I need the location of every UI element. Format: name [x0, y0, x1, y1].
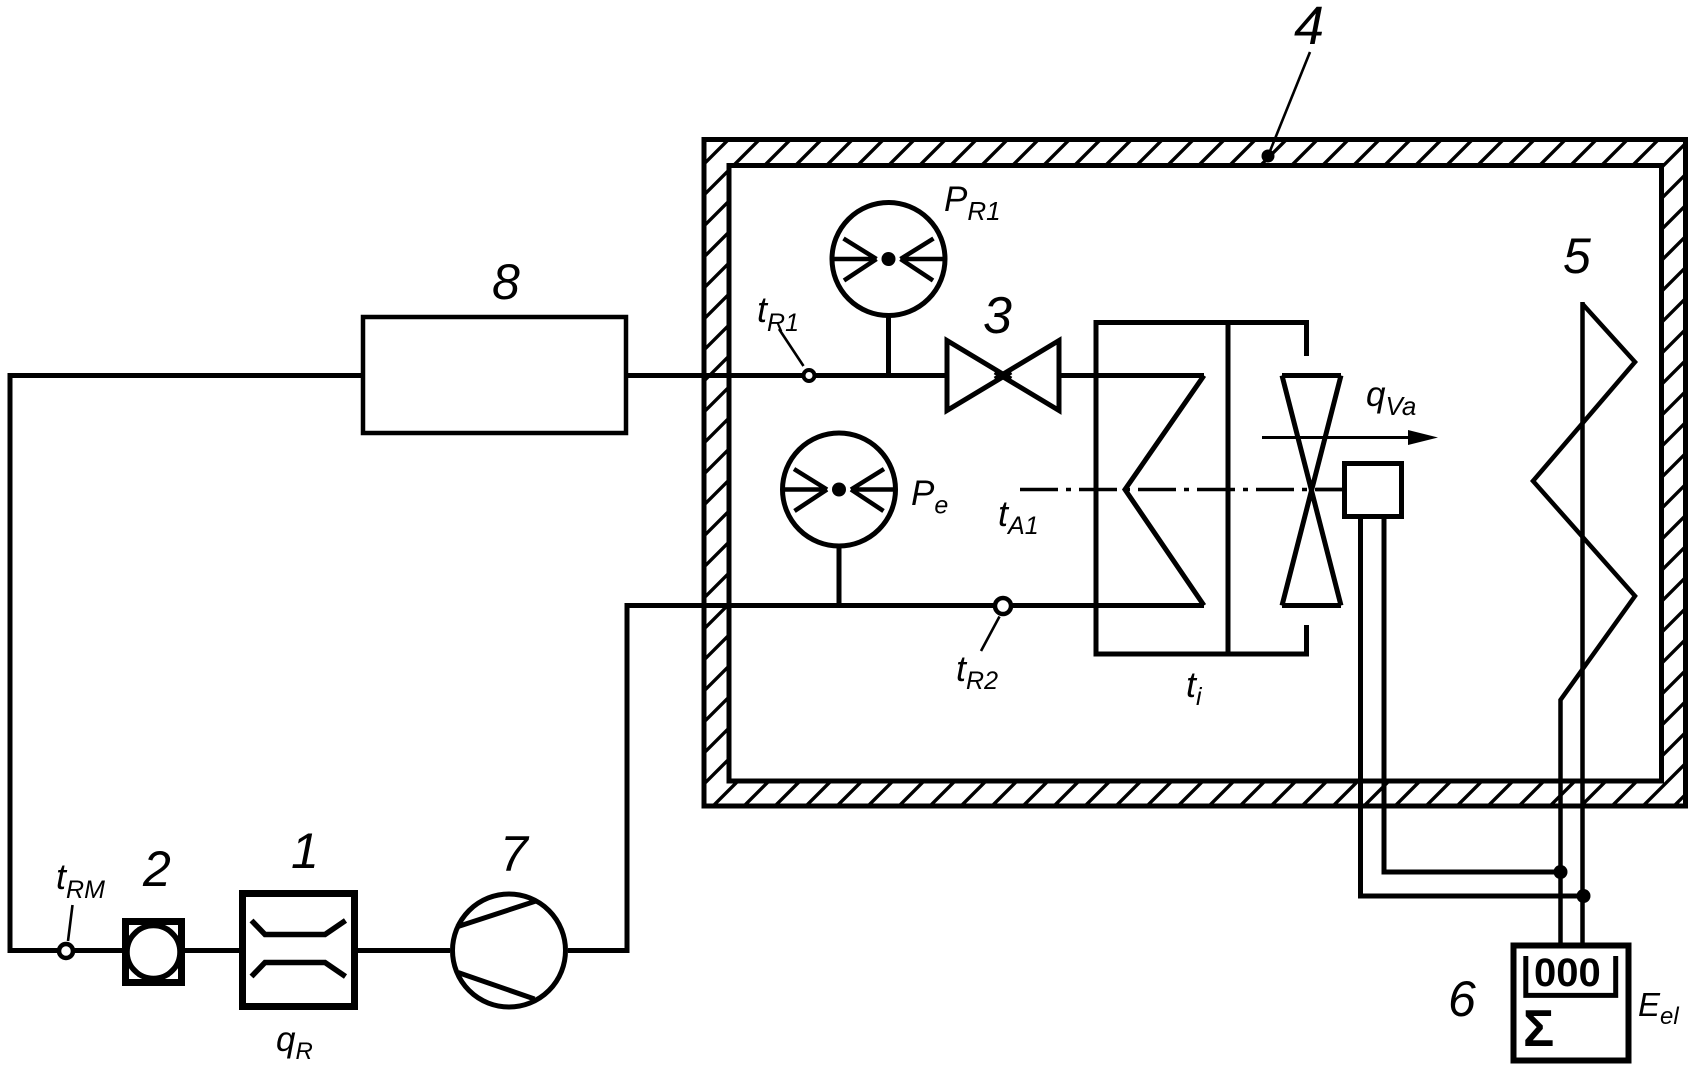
wire: condenser 8 outlet loop (left vertical + bottom to sensor)	[10, 376, 363, 951]
wire: fan shaft stub to motor	[1316, 488, 1346, 492]
callout line for 4	[1268, 52, 1310, 156]
flow meter 1 venturi top line	[252, 921, 346, 935]
fan motor M	[1345, 464, 1402, 517]
evaporator ti divider	[1226, 323, 1231, 655]
junction dot fan/heater wire 2	[1577, 889, 1591, 903]
svg-text:5: 5	[1563, 228, 1591, 284]
callout line tRM	[68, 905, 73, 941]
pressure gauge PR1 internal symbol	[832, 239, 945, 281]
centerline tA1 (dash-dot axis)	[1020, 488, 1342, 492]
compressor 7 vanes	[457, 901, 537, 999]
valve 3 left triangle	[947, 341, 1011, 411]
heater 5 zigzag element	[1533, 304, 1635, 943]
wire: vertical pipe down to compressor 7	[568, 603, 627, 951]
chamber 4 outer wall rectangle	[704, 140, 1686, 807]
energy meter 6 box	[1514, 946, 1629, 1061]
svg-text:1: 1	[291, 823, 319, 879]
sensor tRM node circle	[59, 944, 73, 958]
sight glass 2 square	[126, 922, 182, 983]
chamber 4 hatched wall ring	[11, 120, 1694, 826]
svg-text:4: 4	[1294, 0, 1324, 56]
wire: compressor 7 suction to flow meter 1	[358, 948, 450, 953]
sight glass 2 corner diagonals	[129, 929, 179, 976]
svg-text:Σ: Σ	[1523, 1000, 1554, 1058]
valve 3 right triangle	[995, 341, 1059, 411]
sensor tR2 node circle	[995, 598, 1011, 614]
condenser box 8	[363, 317, 626, 433]
pressure gauge Pe stem	[837, 547, 842, 604]
svg-text:6: 6	[1448, 971, 1476, 1027]
flow meter 1 venturi bottom line	[252, 963, 346, 977]
sight glass 2 circle	[127, 926, 180, 979]
fan rotor (hourglass)	[1282, 376, 1341, 606]
callout dot on wall for 4	[1262, 150, 1275, 163]
flow meter 1 box	[243, 894, 355, 1007]
evaporator ti right top cap	[1304, 323, 1309, 357]
wire: top pipe from condenser 8 into chamber to valve 3	[626, 373, 947, 378]
svg-text:2: 2	[142, 841, 171, 897]
chamber 4 inner wall rectangle	[729, 166, 1662, 782]
heater 5 vertical electrode	[1580, 302, 1585, 943]
wire: top pipe valve 3 to evaporator coil	[1059, 373, 1204, 378]
wire: motor right lead down	[1384, 519, 1561, 872]
pressure gauge Pe body	[783, 433, 896, 546]
svg-text:3: 3	[983, 287, 1012, 345]
pressure gauge PR1 body	[832, 203, 945, 316]
callout line tR2	[981, 617, 1000, 652]
callout line tR1	[779, 329, 804, 366]
wire: motor left lead down	[1361, 519, 1584, 896]
evaporator coil chevron	[1125, 376, 1204, 606]
compressor 7 body	[453, 894, 566, 1007]
svg-text:8: 8	[492, 254, 520, 310]
air flow arrow qVa	[1262, 436, 1416, 439]
pressure gauge PR1 stem	[886, 316, 891, 374]
junction dot fan/heater wire 1	[1554, 865, 1568, 879]
pressure gauge Pe internal symbol	[783, 469, 896, 511]
svg-text:000: 000	[1534, 951, 1601, 995]
evaporator ti outline	[1096, 323, 1307, 655]
wire: flow meter 1 to sight glass 2	[185, 948, 239, 953]
sensor tR1 node circle	[804, 370, 815, 381]
wire: lower pipe from evaporator coil out of chamber	[627, 603, 1204, 608]
energy meter 6 counter window	[1526, 956, 1616, 995]
svg-text:7: 7	[500, 826, 530, 882]
